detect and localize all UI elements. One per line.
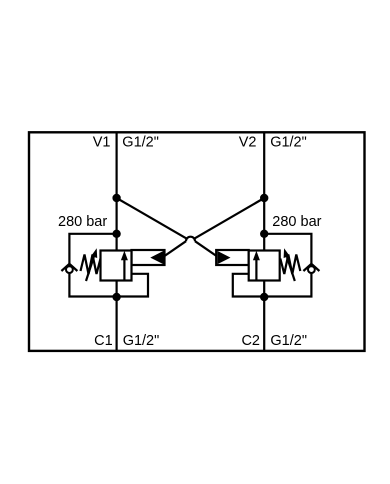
svg-text:V1: V1 [93, 135, 111, 151]
svg-text:280 bar: 280 bar [272, 214, 321, 230]
svg-text:C2: C2 [241, 333, 260, 349]
svg-text:280 bar: 280 bar [58, 214, 107, 230]
svg-text:G1/2": G1/2" [270, 333, 307, 349]
svg-text:V2: V2 [239, 135, 257, 151]
svg-text:G1/2": G1/2" [122, 135, 159, 151]
svg-text:C1: C1 [94, 333, 113, 349]
svg-text:G1/2": G1/2" [123, 333, 160, 349]
svg-text:G1/2": G1/2" [270, 135, 307, 151]
